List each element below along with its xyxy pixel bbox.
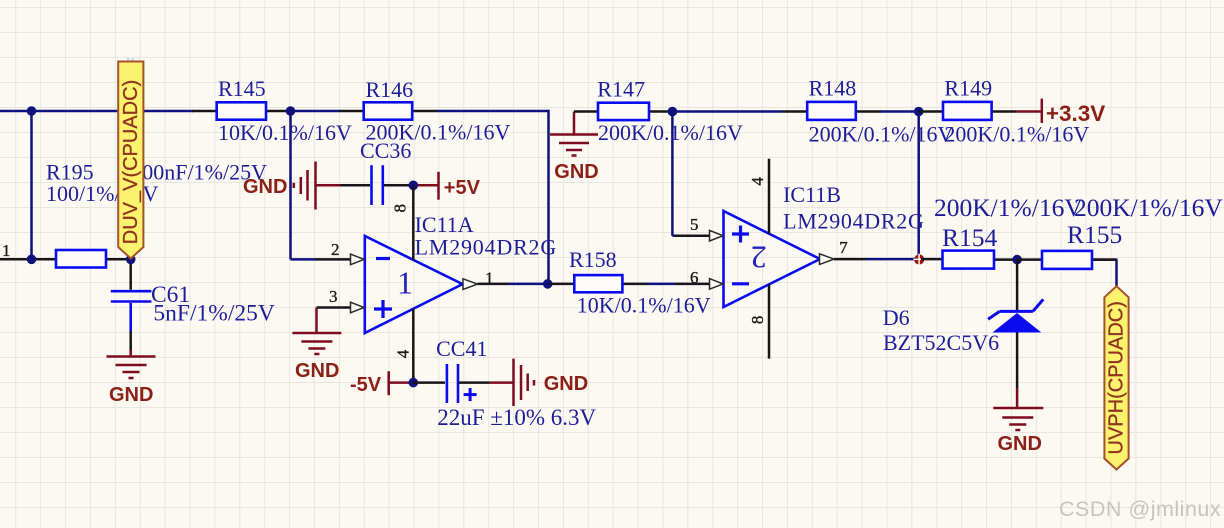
wire — [289, 111, 292, 259]
svg-text:1: 1 — [485, 269, 494, 288]
svg-text:R146: R146 — [366, 77, 414, 102]
svg-text:GND: GND — [544, 373, 588, 395]
pin 8 of IC11B — [748, 284, 769, 358]
svg-text:R154: R154 — [942, 223, 998, 252]
resistor R155 — [1017, 220, 1122, 269]
wire — [671, 112, 674, 236]
svg-text:R145: R145 — [218, 76, 266, 101]
junction node (547.7,283.9) — [543, 279, 553, 289]
wire — [291, 258, 318, 261]
svg-text:6: 6 — [690, 268, 699, 287]
resistor R147 — [574, 77, 743, 146]
svg-text:2: 2 — [751, 240, 767, 276]
junction node (31.5,111) — [27, 106, 37, 116]
svg-text:3: 3 — [329, 287, 338, 306]
pin 2 of IC11A — [316, 240, 364, 265]
pin 5 of IC11B — [675, 215, 723, 241]
capacitor CC36 — [341, 138, 414, 205]
svg-text:LM2904DR2G: LM2904DR2G — [783, 209, 924, 234]
resistor R146 — [340, 77, 511, 145]
wire — [672, 234, 676, 237]
junction node (130.7,259.3) — [126, 254, 136, 264]
wire — [291, 110, 341, 113]
ground (CC41, pointing right) — [490, 359, 588, 406]
wire — [0, 110, 193, 113]
junction node (918.6? none) ground (D6) — [993, 388, 1043, 455]
svg-text:UVPH(CPUADC): UVPH(CPUADC) — [1106, 301, 1128, 454]
power +5V — [413, 172, 480, 200]
wire — [509, 283, 550, 286]
svg-text:CC36: CC36 — [360, 138, 411, 163]
junction node (413.3,382.6) — [409, 378, 419, 388]
svg-text:GND: GND — [554, 161, 598, 183]
svg-text:200K/0.1%/16V: 200K/0.1%/16V — [598, 120, 743, 145]
svg-text:GND: GND — [243, 176, 287, 198]
net marks above port — [127, 58, 134, 65]
pin 3 of IC11A — [317, 287, 365, 313]
wire — [1115, 260, 1118, 287]
capacitor CC41 — [413, 336, 596, 430]
pin 8 of IC11A — [391, 185, 414, 260]
svg-text:8: 8 — [391, 204, 410, 213]
pin 7 output of IC11B — [820, 238, 867, 264]
svg-text:1: 1 — [2, 241, 11, 260]
resistor R149 — [919, 76, 1090, 147]
svg-text:R158: R158 — [569, 247, 617, 272]
junction node (413.3,185.3) — [409, 181, 419, 191]
wire — [866, 258, 916, 261]
svg-text:CC41: CC41 — [436, 336, 487, 361]
svg-text:22uF ±10% 6.3V: 22uF ±10% 6.3V — [437, 405, 596, 430]
svg-text:2: 2 — [331, 240, 340, 259]
wire — [547, 110, 550, 284]
wire — [647, 283, 675, 286]
op-amp IC11B — [724, 182, 925, 307]
svg-text:R149: R149 — [944, 76, 992, 101]
wire — [921, 258, 943, 261]
ground (pin 3 of IC11A) — [292, 308, 341, 383]
svg-text:R155: R155 — [1067, 220, 1122, 249]
svg-text:10K/0.1%/16V: 10K/0.1%/16V — [218, 120, 352, 145]
svg-text:-5V: -5V — [350, 374, 382, 396]
power -5V — [350, 371, 413, 396]
svg-text:+5V: +5V — [444, 177, 481, 199]
svg-text:200K/1%/16V: 200K/1%/16V — [934, 193, 1083, 222]
wire — [437, 110, 549, 113]
junction node (1017.1,259.6) — [1012, 255, 1022, 265]
junction node (31.5,259) — [27, 254, 37, 264]
svg-text:IC11B: IC11B — [783, 182, 841, 207]
svg-text:+3.3V: +3.3V — [1046, 101, 1105, 126]
svg-text:10K/0.1%/16V: 10K/0.1%/16V — [577, 293, 711, 318]
svg-text:DUV_V(CPUADC): DUV_V(CPUADC) — [120, 80, 142, 244]
resistor R154 — [942, 223, 1018, 269]
wire — [917, 112, 920, 257]
svg-text:BZT52C5V6: BZT52C5V6 — [883, 330, 999, 355]
wire — [880, 110, 919, 113]
wire — [674, 110, 784, 113]
port DUV_V(CPUADC) — [118, 62, 143, 259]
resistor R148 — [783, 76, 954, 147]
svg-text:GND: GND — [109, 384, 153, 406]
pin 4 of IC11B — [748, 159, 769, 234]
svg-text:5: 5 — [690, 215, 699, 234]
capacitor C61 — [111, 259, 275, 352]
svg-text:IC11A: IC11A — [415, 212, 474, 237]
svg-text:GND: GND — [998, 433, 1042, 455]
power +3.3V — [1016, 99, 1105, 126]
pin 1 output of IC11A — [463, 269, 509, 290]
wire — [0, 258, 32, 261]
svg-text:1: 1 — [397, 265, 413, 301]
pin 1 (left edge component) — [0, 258, 32, 261]
svg-text:5nF/1%/25V: 5nF/1%/25V — [153, 301, 274, 327]
junction node (672.4,111.5) — [668, 107, 678, 117]
junction node (918.7,111.5) — [914, 107, 924, 117]
ground (CC36, pointing left) — [243, 162, 341, 210]
svg-text:7: 7 — [839, 238, 848, 257]
ERC cross marker — [914, 254, 926, 266]
wire — [30, 111, 33, 259]
svg-text:8: 8 — [748, 316, 767, 325]
svg-text:GND: GND — [295, 360, 339, 382]
svg-text:4: 4 — [394, 349, 413, 358]
port UVPH(CPUADC) — [1104, 286, 1128, 469]
junction node (290.5,111) — [286, 106, 296, 116]
svg-text:200K/1%/16V: 200K/1%/16V — [1074, 193, 1223, 222]
svg-text:R148: R148 — [809, 76, 857, 101]
resistor R195 — [32, 160, 132, 268]
resistor R158 — [549, 247, 711, 318]
ground (C61) — [107, 350, 156, 406]
svg-text:200K/0.1%/16V: 200K/0.1%/16V — [809, 121, 954, 146]
zener diode D6 — [883, 260, 1044, 389]
svg-text:CSDN @jmlinux: CSDN @jmlinux — [1059, 497, 1221, 521]
resistor R145 — [192, 76, 352, 145]
svg-text:4: 4 — [748, 177, 767, 186]
wire — [1092, 258, 1118, 261]
pin 4 of IC11A — [394, 309, 414, 383]
svg-text:LM2904DR2G: LM2904DR2G — [415, 235, 557, 260]
ground (R147) — [550, 112, 599, 184]
pin 6 of IC11B — [675, 268, 723, 289]
op-amp IC11A — [365, 212, 557, 333]
svg-text:D6: D6 — [883, 305, 910, 330]
svg-text:R147: R147 — [597, 77, 645, 102]
